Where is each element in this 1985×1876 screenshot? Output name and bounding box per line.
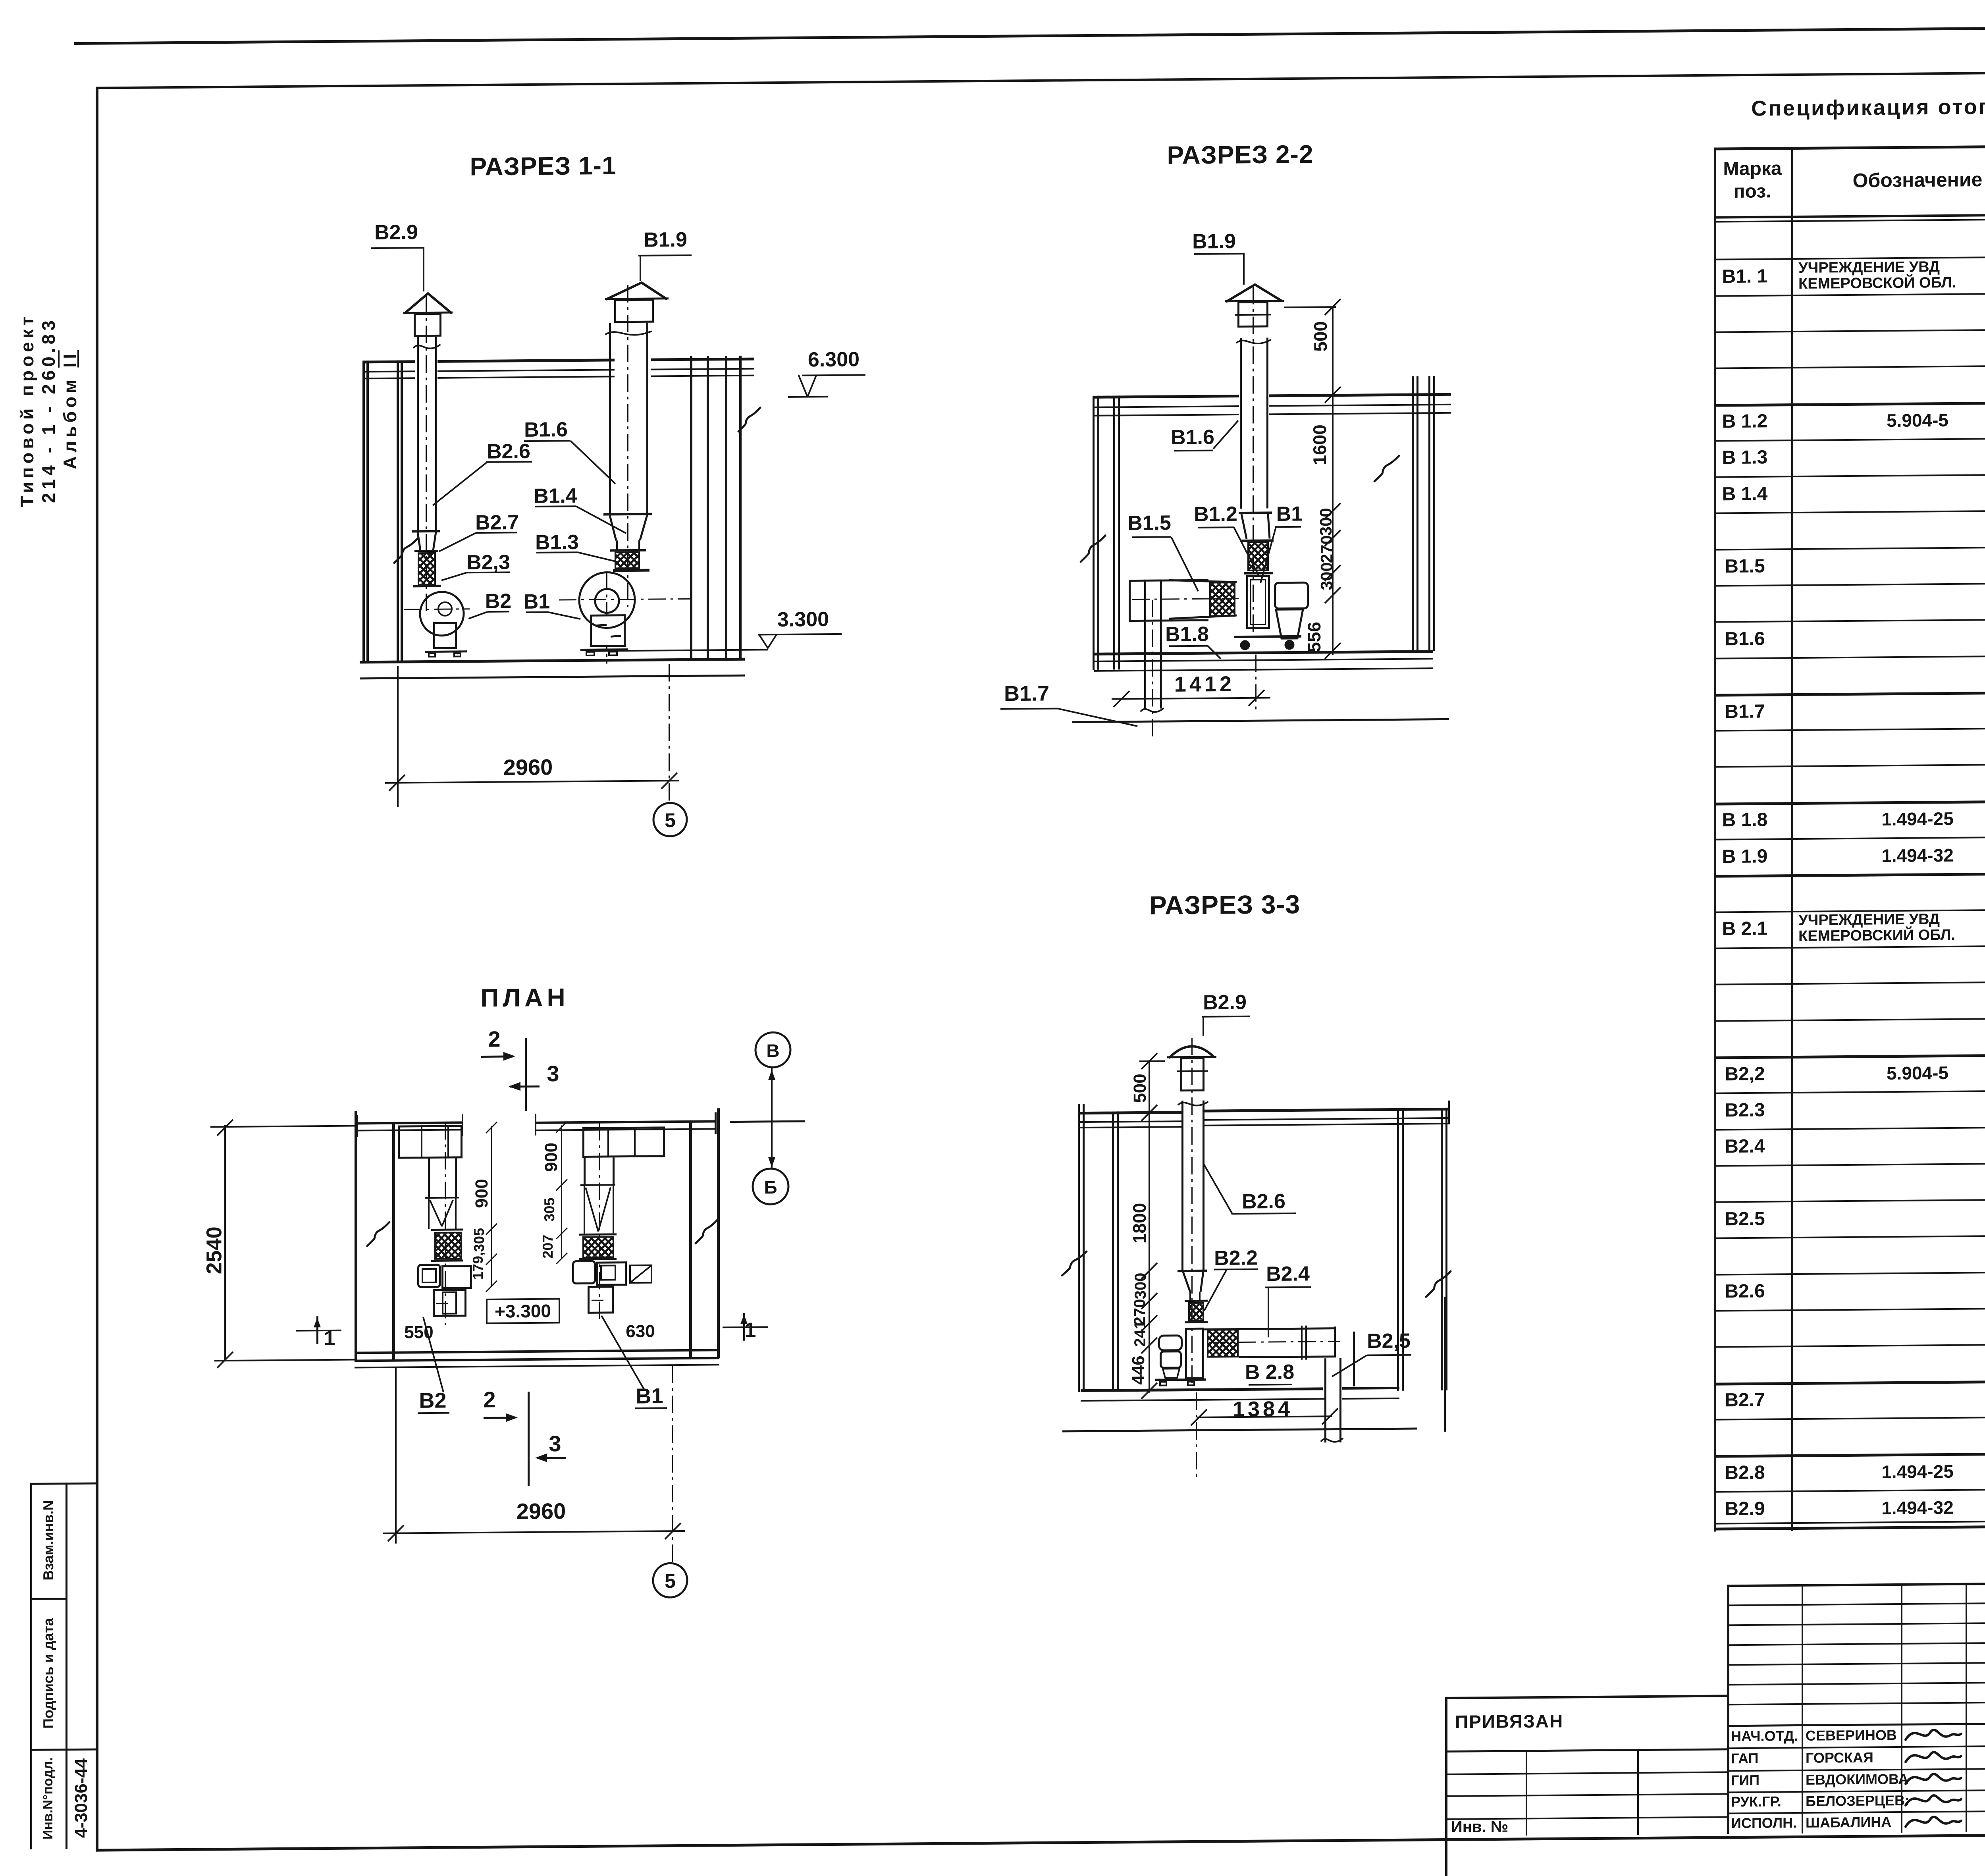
plan section cut mark 3 top <box>547 1062 559 1085</box>
grid axis arrow В-Б <box>771 1068 773 1168</box>
plan dimensions 305/179 left <box>491 1230 492 1287</box>
spec table header lines <box>1714 141 1985 150</box>
plan grid bubble 5 <box>665 1571 676 1592</box>
plan unit B1: motor <box>588 1286 614 1314</box>
transition section 3-3 <box>1178 1270 1207 1273</box>
duct B2.6 left stack <box>417 337 419 530</box>
fan B1 base <box>580 648 628 651</box>
horizontal duct B2.4 section 3-3 <box>1204 1327 1336 1330</box>
title block lower-left grid <box>1445 1771 1727 1775</box>
plan dimension 2540 <box>210 1125 355 1128</box>
left strip label Подпись и дата <box>41 1618 56 1729</box>
plan top wall <box>357 1121 463 1124</box>
duct B1.6 section 2-2 <box>1240 338 1242 509</box>
title block Привязан box <box>1445 1697 1447 1876</box>
label B2.6 <box>487 441 530 463</box>
umbrella cap B2.9 left stack <box>403 312 453 314</box>
section 3-3 lower slab line <box>1062 1427 1417 1432</box>
label B1 section 2-2 <box>1276 503 1303 525</box>
intake duct B1.5 section 2-2 <box>1129 579 1208 582</box>
plan section cut mark 2 bottom <box>483 1388 495 1411</box>
plan unit B2: wall sleeve <box>398 1125 463 1159</box>
transition B2.7 <box>412 530 440 533</box>
duct B1.7 below floor <box>1144 580 1146 709</box>
label B2.5 section 3-3 <box>1367 1330 1411 1352</box>
elevation mark 6.300 <box>808 349 860 371</box>
duct B2.5 going down <box>1324 1358 1326 1442</box>
inner frame top line <box>96 68 1985 89</box>
dimension chain left section 3-3 <box>1149 1113 1150 1393</box>
plan bottom wall <box>355 1349 719 1354</box>
section 3-3 right wall <box>1397 1108 1399 1391</box>
title block outer lines <box>1727 1579 1985 1587</box>
left margin vertical text: project id <box>16 291 81 529</box>
sheet outer top border line <box>74 23 1985 45</box>
grid axis side line <box>730 1120 805 1123</box>
section 2-2 roof slab <box>1093 395 1239 399</box>
dimension 2960 section 1-1 <box>397 666 399 807</box>
label B1.6 section 2-2 <box>1171 426 1214 448</box>
plan section cut mark 3 bottom <box>549 1432 561 1456</box>
left strip label Взам.инв.N <box>41 1500 56 1580</box>
fan B2 base <box>425 650 467 653</box>
fan B1 motor box <box>590 614 626 647</box>
grid bubble 5 section 1-1 <box>665 810 676 831</box>
label B1.2 section 2-2 <box>1194 503 1237 525</box>
plan section cut mark 2 top <box>488 1028 500 1051</box>
label B1.9 section 2-2 <box>1192 231 1236 253</box>
label B2.2 section 3-3 <box>1214 1247 1258 1269</box>
label B2.9 <box>374 222 418 243</box>
specification table title <box>1751 92 1985 120</box>
plan unit B1: duct <box>584 1158 586 1186</box>
plan unit B1: fan plan view <box>572 1260 596 1284</box>
dimension 500 section 3-3 <box>1139 1060 1165 1062</box>
section 1-1 right wall <box>690 356 692 660</box>
left strip label Инв.N подл. <box>41 1757 56 1839</box>
section 1-1 roof slab lines <box>363 360 415 363</box>
section 3-3 left wall <box>1078 1104 1080 1392</box>
plan dimension 550 <box>404 1323 433 1342</box>
label B1.4 <box>534 485 577 507</box>
spec table bottom double line <box>1714 1517 1985 1524</box>
dimension 1412 <box>1112 697 1270 700</box>
plan unit B1 centerline <box>599 1123 600 1324</box>
spec table verticals <box>1714 148 1716 1532</box>
label B2.6 section 3-3 <box>1242 1191 1285 1213</box>
section 3-3 roof slab <box>1078 1111 1182 1114</box>
plan section mark 1 left <box>324 1328 335 1350</box>
title block Инв.N label <box>1451 1818 1508 1836</box>
plan unit B2: motor <box>433 1289 466 1317</box>
plan label B2 <box>419 1389 446 1412</box>
plan unit B1: wall sleeve <box>582 1126 665 1158</box>
label B1.9 <box>644 229 687 251</box>
frame bottom line <box>96 1830 1985 1852</box>
section 2-2 right wall <box>1412 376 1414 651</box>
duct B2.6 section 3-3 <box>1181 1101 1183 1271</box>
label B1.7 section 2-2 <box>1004 682 1049 705</box>
transition B1.4 <box>603 513 652 516</box>
title block row ГИП <box>1731 1773 1760 1788</box>
spec header cell texts <box>1723 159 1781 179</box>
title block signature rows <box>1727 1745 1985 1749</box>
title block row ИСПОЛН. <box>1731 1815 1797 1831</box>
label B2.7 <box>475 512 519 534</box>
flexible insert B1.2 (hatched) <box>1241 539 1274 542</box>
frame left line <box>96 87 98 1852</box>
title block row РУК.ГР. <box>1731 1794 1781 1809</box>
left strip number 4-3036-44 <box>72 1758 91 1838</box>
plan title <box>480 984 569 1012</box>
fan B1 scroll <box>559 598 692 601</box>
section 1-1 title <box>470 152 616 180</box>
section 1-1 floor slab <box>360 658 745 664</box>
plan unit B1: cone <box>580 1184 615 1186</box>
fan housing section 2-2 <box>1246 575 1270 629</box>
plan section mark 1 right <box>745 1319 756 1341</box>
label B1.3 <box>535 532 579 553</box>
plan unit B2 centerline <box>445 1122 446 1325</box>
umbrella cap B2.9 section 3-3 <box>1167 1056 1216 1058</box>
label B1.6 <box>524 419 568 441</box>
title block row НАЧ.ОТД. <box>1731 1728 1798 1744</box>
plan dimension 2960 <box>395 1368 397 1544</box>
left strip table borders <box>30 1483 96 1485</box>
title block row ГАП <box>1731 1751 1759 1766</box>
label B2.9 section 3-3 <box>1203 992 1247 1014</box>
section 3-3 floor slab <box>1081 1387 1323 1392</box>
label B2 <box>485 590 511 612</box>
section 2-2 floor slab <box>1094 650 1433 656</box>
umbrella cap B1.9 right stack <box>605 297 669 300</box>
title block small revision grid <box>1727 1585 1729 1834</box>
spec table row lines <box>1714 253 1985 260</box>
fan B2 motor box <box>433 622 457 649</box>
label B1.8 section 2-2 <box>1165 623 1209 645</box>
right stack centerline <box>627 285 628 607</box>
label B2.4 section 3-3 <box>1266 1263 1310 1285</box>
plan level mark +3.300 <box>486 1298 560 1324</box>
duct B1.6 right stack <box>609 323 611 515</box>
fan pedestal base section 2-2 <box>1234 635 1301 638</box>
grid bubble В <box>766 1041 779 1060</box>
plan unit B2: flexible insert <box>431 1228 463 1231</box>
grid bubble Б <box>764 1178 777 1197</box>
fan B2 scroll <box>404 608 470 610</box>
left stack centerline <box>426 296 427 613</box>
fan section 3-3 <box>1185 1328 1204 1379</box>
section 1-1 left wall <box>362 361 365 662</box>
dimension 1384 <box>1233 1398 1293 1421</box>
plan unit B2: cone <box>425 1197 459 1199</box>
flexible insert B2.2 (hatched) <box>1185 1300 1208 1302</box>
plan unit B2: duct <box>428 1159 430 1198</box>
plan unit B1: flexible insert <box>579 1233 617 1236</box>
plan side walls <box>355 1111 357 1361</box>
plan dimension 900 right <box>561 1125 562 1186</box>
dimension chain right section 2-2 <box>1332 395 1334 655</box>
motor section 2-2 <box>1274 582 1309 610</box>
label B1.5 section 2-2 <box>1127 512 1171 534</box>
section 2-2 title <box>1167 141 1313 169</box>
section 2-2 left wall <box>1093 396 1095 670</box>
section 3-3 wall breaks <box>1444 1297 1446 1432</box>
section 3-3 title <box>1149 891 1300 919</box>
dimension 500 section 2-2 <box>1284 306 1336 308</box>
elevation mark 3.300 <box>777 609 829 631</box>
label B1 <box>524 591 550 613</box>
umbrella cap section 2-2 <box>1225 300 1284 302</box>
flexible insert B1.3 (hatched) <box>616 540 618 551</box>
section 2-2 lower slab line <box>1072 718 1449 723</box>
flexible insert B2.3 (hatched) <box>418 552 436 586</box>
plan dimension 900 left <box>491 1126 492 1230</box>
label B2.8 section 3-3 <box>1245 1361 1294 1384</box>
plan label B1 <box>636 1385 663 1407</box>
plan unit B2: fan plan view <box>417 1264 441 1288</box>
plan unit B1: side stub <box>629 1265 652 1284</box>
plan dimension 630 <box>626 1322 655 1341</box>
plan dimensions 305/207 right <box>561 1186 562 1259</box>
transition section 2-2 <box>1239 511 1272 514</box>
label B2.3 <box>466 551 510 573</box>
